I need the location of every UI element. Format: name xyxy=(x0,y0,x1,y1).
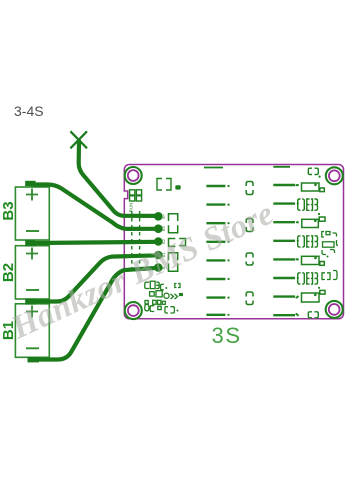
top edge silk line A xyxy=(204,167,223,169)
top edge silk line C xyxy=(273,166,290,168)
mosfet R3 xyxy=(296,217,325,228)
column A dots xyxy=(227,185,229,316)
cap footprint pad3 right xyxy=(179,239,185,246)
footprint 083 R4 xyxy=(298,236,318,247)
resistor column A xyxy=(206,186,225,315)
cap footprint pad4 xyxy=(169,253,178,261)
small component dot xyxy=(175,185,180,189)
mosfet R5 xyxy=(295,256,324,265)
svg-text:3-4S: 3-4S xyxy=(14,103,44,119)
mounting hole TR xyxy=(326,167,343,184)
right edge cluster row6 xyxy=(322,271,337,280)
cap footprint pad5 xyxy=(169,263,178,271)
terminal tab B3/B2 xyxy=(25,240,35,246)
RUN jumper footprint xyxy=(130,190,135,195)
svg-text:3S: 3S xyxy=(212,323,242,348)
column B bracket 2 xyxy=(246,219,253,232)
right edge cluster rows4-5 xyxy=(322,232,338,258)
pad 2 xyxy=(154,224,163,233)
battery B3 xyxy=(0,187,49,240)
wire 3 : B3-/B2+ to pad3 xyxy=(36,242,158,243)
footprint 083 R2 xyxy=(298,199,320,215)
wire 5 : B1- to pad5 xyxy=(36,268,158,360)
column B bracket 1 xyxy=(246,182,253,195)
column B bracket 4 xyxy=(246,292,253,305)
mosfet R1 xyxy=(295,183,324,192)
resistor column C xyxy=(273,185,295,315)
wire 4 : B2-/B1+ to pad4 xyxy=(36,255,158,301)
mounting hole BR xyxy=(326,301,343,318)
battery B1 xyxy=(0,304,49,358)
pad 1 xyxy=(154,212,163,221)
pad 5 xyxy=(154,263,163,272)
mounting hole BL xyxy=(125,302,142,319)
svg-text:RUN: RUN xyxy=(129,203,134,213)
pad 3 xyxy=(154,237,163,246)
column C dots xyxy=(297,184,299,316)
terminal tab top of B3 xyxy=(25,181,35,186)
battery B2 xyxy=(0,246,49,299)
bottom C) footprint R8 xyxy=(295,312,318,318)
cap footprint pad2 xyxy=(169,225,178,233)
X mark (unused 4S wire) xyxy=(70,131,87,148)
terminal tab B2/B1 xyxy=(25,299,35,305)
terminal tab bottom of B1 xyxy=(28,357,40,362)
mosfet R7 xyxy=(295,290,325,302)
bracket pair near TL hole xyxy=(157,179,162,191)
mounting hole TL xyxy=(125,167,142,184)
top-right C) footprint xyxy=(308,168,312,174)
dashed connector line 2 xyxy=(139,211,141,274)
svg-text:B2: B2 xyxy=(0,263,17,282)
wire 1 : X to pad1 xyxy=(79,141,159,216)
cap footprint pad3 left xyxy=(169,239,176,247)
dashed connector line 1 xyxy=(131,211,133,274)
silkscreen xyxy=(129,167,338,318)
svg-text:B3: B3 xyxy=(0,201,17,220)
cap footprint pad1 xyxy=(169,214,178,221)
PCB board outline xyxy=(124,165,343,319)
bottom-left dense cluster xyxy=(145,281,183,313)
wire 2 : B3+ to pad2 xyxy=(32,185,158,229)
column B bracket 3 xyxy=(246,253,253,265)
footprint 083 R6 xyxy=(298,273,320,289)
pad 4 xyxy=(154,251,163,260)
